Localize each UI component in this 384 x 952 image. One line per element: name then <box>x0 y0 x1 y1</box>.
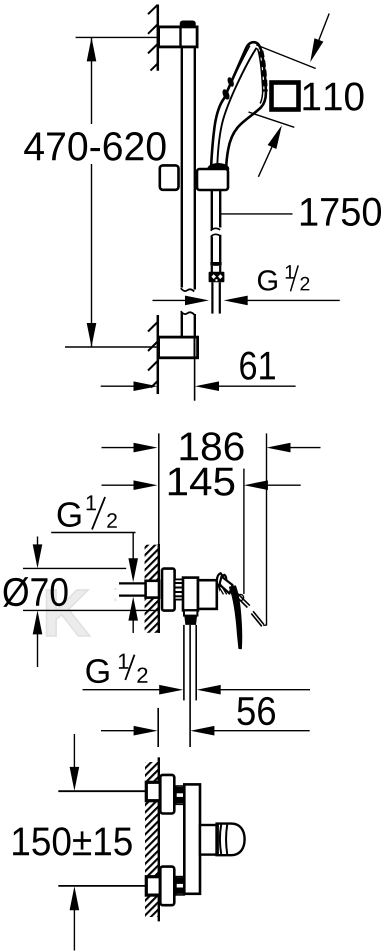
dimension square 110 <box>249 14 364 177</box>
wall (bottom bracket) <box>148 315 158 394</box>
lever neck <box>220 577 233 594</box>
dimension 56 <box>101 697 310 747</box>
extension line 145 <box>243 469 245 594</box>
dimension G 1/2 (supply, mid) <box>51 495 138 633</box>
bottom wall bracket of rail <box>159 337 198 358</box>
dimension 1750 (hose length) <box>221 198 382 226</box>
extension line 186 <box>266 433 268 625</box>
lever ghost end loop <box>237 594 243 600</box>
shower hose (lower) with G 1/2 fitting <box>209 234 225 313</box>
wall (bottom view) <box>145 757 159 921</box>
lever pivot dashes <box>217 583 226 594</box>
watermark K <box>46 588 116 636</box>
cartridge dome <box>217 573 226 583</box>
cartridge housing (mid) <box>198 580 217 609</box>
shower outlet union (mid) <box>184 610 197 625</box>
spout neck <box>200 825 217 855</box>
hand shower <box>211 42 266 168</box>
spout cap / aerator <box>217 824 245 856</box>
shower rail (upper segment) <box>181 47 195 292</box>
supply pipe stub (mid) <box>119 583 147 595</box>
lever blade <box>230 586 242 649</box>
supply nut in wall (mid) <box>146 581 159 598</box>
dimension 186 <box>102 432 321 460</box>
extension line (wall face) <box>158 433 160 544</box>
handle collar <box>207 163 229 175</box>
upper knurled nut <box>176 786 184 804</box>
supply pipes (bottom view) <box>58 790 146 792</box>
mixer body plate (bottom view) <box>184 784 200 893</box>
wall (mid, mixer) <box>145 544 159 633</box>
dimension G 1/2 (hose fitting) <box>153 265 340 305</box>
upper escutcheon <box>160 775 174 814</box>
escutcheon (mid) <box>162 569 175 611</box>
wall (top bracket) <box>148 5 158 71</box>
knurled nut (mid) <box>175 579 183 599</box>
shower rail (lower segment) <box>181 311 195 337</box>
lever open-position ghost lines <box>233 590 264 626</box>
dimension 470-620 <box>18 37 171 347</box>
lower escutcheon <box>160 867 174 906</box>
lever shadow wedge <box>217 584 220 593</box>
shower outlet pipe (mid) <box>184 625 196 747</box>
shower holder <box>197 169 228 190</box>
dimension G 1/2 (outlet) <box>83 654 311 695</box>
upper union nut in wall <box>146 782 160 800</box>
top wall bracket of rail <box>159 21 198 47</box>
shower hose (upper) <box>211 190 221 231</box>
mixer body (mid) <box>183 578 198 611</box>
dimension 145 <box>102 468 301 496</box>
lower knurled nut <box>176 877 184 895</box>
rail slider knob <box>160 165 179 189</box>
dimension 61 <box>101 351 296 400</box>
lower union nut in wall <box>146 877 160 895</box>
dimension 150±15 <box>13 734 132 951</box>
dimension Ø70 <box>3 537 160 668</box>
